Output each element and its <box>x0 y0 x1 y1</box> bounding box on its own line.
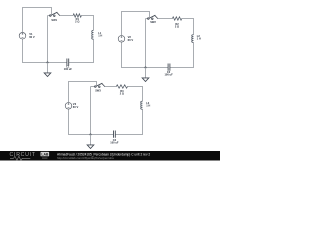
circuit 1 <box>19 8 102 77</box>
resistor R2 <box>172 17 181 29</box>
wire <box>128 87 143 102</box>
wire <box>182 19 194 35</box>
wire <box>170 43 194 68</box>
svg-text:http://circuitlab.com/c/8yw4kq: http://circuitlab.com/c/8yw4kq7b2vv/perc… <box>57 156 114 160</box>
voltage source V3 <box>65 102 78 109</box>
wire <box>69 109 114 134</box>
wire <box>146 19 149 69</box>
svg-text:SW3: SW3 <box>95 89 101 93</box>
wire <box>69 82 97 103</box>
voltage source V2 <box>118 35 133 42</box>
svg-text:LAB: LAB <box>41 152 49 156</box>
svg-text:100 uF: 100 uF <box>64 67 73 71</box>
inductor L1 <box>92 30 103 39</box>
inductor L3 <box>141 101 151 109</box>
wire <box>122 12 150 36</box>
svg-text:1 H: 1 H <box>146 104 150 108</box>
wire <box>23 8 52 33</box>
svg-text:1 H: 1 H <box>197 37 201 41</box>
circuit 3 <box>65 82 150 149</box>
footer text <box>57 153 150 161</box>
capacitor C1 <box>64 59 73 72</box>
wire <box>81 16 93 31</box>
svg-text:60 V: 60 V <box>128 38 134 42</box>
svg-text:1 H: 1 H <box>98 34 102 38</box>
node ground junction (net 0) <box>145 67 147 69</box>
svg-text:2 Ω: 2 Ω <box>75 20 79 24</box>
inductor L2 <box>192 34 201 43</box>
capacitor C3 <box>110 131 119 145</box>
ground <box>142 68 149 82</box>
switch SW3 <box>95 83 105 92</box>
ground <box>87 135 94 149</box>
wire <box>59 15 73 17</box>
svg-text:100 uF: 100 uF <box>164 73 173 77</box>
switch SW2 <box>148 15 158 24</box>
wire <box>69 39 94 62</box>
switch SW1 <box>50 12 60 22</box>
footer bar <box>0 151 220 161</box>
voltage source V1 <box>19 32 35 39</box>
ground <box>44 63 51 77</box>
svg-text:60 V: 60 V <box>29 35 35 39</box>
wire <box>91 87 96 136</box>
wire <box>115 109 142 134</box>
svg-text:100 uF: 100 uF <box>110 141 119 145</box>
wire <box>157 18 172 20</box>
capacitor C2 <box>164 64 173 77</box>
svg-text:2 Ω: 2 Ω <box>120 91 124 95</box>
svg-text:CIRCUIT: CIRCUIT <box>10 152 36 158</box>
svg-text:2 Ω: 2 Ω <box>175 25 179 29</box>
wire <box>48 16 51 64</box>
node ground junction (net 0) <box>47 62 49 64</box>
resistor R1 <box>73 14 81 24</box>
svg-text:60 V: 60 V <box>73 105 79 109</box>
circuit 2 <box>118 12 201 82</box>
wire <box>104 86 116 88</box>
CircuitLab logo <box>10 152 50 160</box>
svg-text:SW2: SW2 <box>150 20 156 24</box>
svg-text:SW1: SW1 <box>51 18 57 22</box>
node ground junction (net 0) <box>90 134 92 136</box>
wire <box>122 42 169 67</box>
wire <box>23 39 67 63</box>
resistor R3 <box>116 85 127 96</box>
